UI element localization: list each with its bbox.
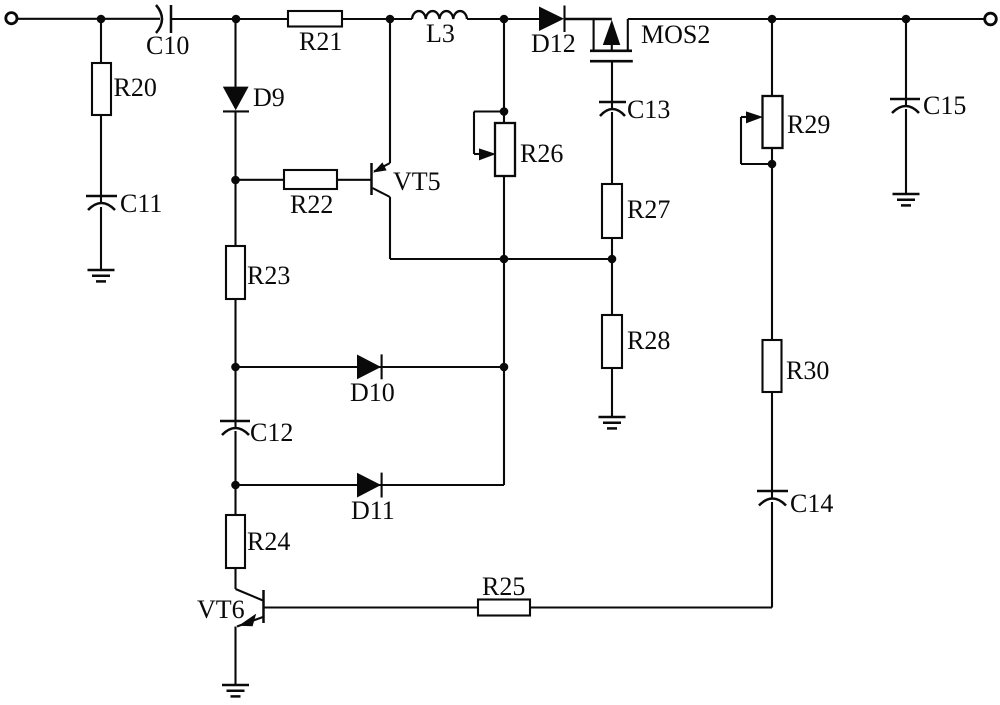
wire C11 to ground [100,207,102,270]
resistor R24 [226,515,245,568]
wire C12 to D11 row [234,431,236,485]
wire top left [18,18,160,20]
node top x504 [500,15,509,24]
svg-text:R27: R27 [627,195,670,224]
svg-text:L3: L3 [426,19,455,48]
wire MOS2 gate to C13 [611,61,613,109]
svg-text:D12: D12 [531,29,576,58]
node x235 y179 [231,176,240,185]
node x772 y164 [768,160,777,169]
svg-text:C15: C15 [923,91,966,120]
node top x390 [386,15,395,24]
svg-text:R25: R25 [482,572,525,601]
capacitor C13 [599,101,626,104]
wire top to R26 [503,19,505,123]
capacitor C14 [757,490,788,493]
svg-text:D11: D11 [351,496,395,525]
wire D12 to MOS2 [564,18,612,20]
wire R23 to D10 row [234,299,236,428]
wire C13 to R27 [611,112,613,184]
node top x906 [902,15,911,24]
svg-text:R24: R24 [247,527,290,556]
ground under C15 [893,194,920,205]
wire R30 to C14 [771,392,773,498]
transistor MOS2 [590,19,710,61]
svg-text:R23: R23 [247,261,290,290]
wire R21 to L3 [342,18,412,20]
resistor R30 [763,340,782,392]
terminal input left [6,13,17,24]
node left x101 [97,15,106,24]
svg-text:R20: R20 [114,73,157,102]
potentiometer R26 [474,112,563,177]
wire R25 to right column [530,606,772,608]
resistor R27 [602,184,622,238]
wire C14 to R25 row [771,502,773,608]
svg-text:R21: R21 [299,27,342,56]
node x235 y485 [231,481,240,490]
wire D11 row [236,484,505,486]
potentiometer R29 [741,96,830,164]
svg-text:R26: R26 [520,139,563,168]
wire C15 to ground [905,109,907,194]
diode D10 [357,355,381,380]
svg-text:MOS2: MOS2 [641,20,710,49]
wire D9 to node [234,111,236,246]
resistor R22 [284,170,337,189]
wire R29 to node [771,148,773,340]
node x504 y259 [500,255,509,264]
wire R22 to VT5 base [337,179,371,181]
terminal output right [985,13,997,25]
svg-text:C14: C14 [790,489,833,518]
resistor R20 [92,63,111,115]
wire R20 to C11 [100,115,102,203]
diode D12 [539,7,564,32]
transistor VT5 [372,19,441,259]
node top x772 [768,15,777,24]
svg-text:VT6: VT6 [197,595,245,624]
capacitor C12 [220,420,250,423]
wire R28 to ground [611,368,613,417]
svg-text:R28: R28 [627,326,670,355]
node x504 y111 [500,107,509,116]
wire C10 to R21 [171,18,288,20]
transistor VT6 [197,568,264,685]
ground under R28 [599,417,626,428]
svg-text:D9: D9 [253,83,285,112]
resistor R25 [478,600,530,616]
resistor R23 [226,246,245,299]
svg-text:C11: C11 [120,189,162,218]
capacitor C15 [890,98,920,101]
node x612 y259 [608,255,617,264]
svg-text:C12: C12 [250,418,293,447]
node x504 y367 [500,363,509,372]
node x235 y367 [231,363,240,372]
wire top to C15 [905,19,907,106]
svg-text:VT5: VT5 [393,167,441,196]
svg-text:C10: C10 [146,31,189,60]
wire node to R24 [234,485,236,515]
diode D9 [223,87,249,111]
wire node to R20 [100,19,102,63]
svg-text:R29: R29 [787,110,830,139]
wire node to R22 [236,179,285,181]
node top x236 [232,15,241,24]
ground under VT6 [222,685,249,696]
resistor R28 [602,315,622,368]
resistor R21 [288,11,342,27]
capacitor C11 [86,195,117,198]
svg-text:R22: R22 [290,190,333,219]
svg-text:C13: C13 [627,95,670,124]
wire L3 to D12 [467,18,539,20]
wire D10 row [236,366,505,368]
inductor L3 [412,11,467,19]
capacitor C10 [156,5,162,33]
wire top to R29 [771,19,773,96]
wire R27 to node [611,238,613,315]
svg-text:D10: D10 [350,378,395,407]
wire MOS2 to right terminal [628,18,984,20]
wire node to D9 [234,19,236,87]
ground under C11 [88,270,115,281]
wire node row [390,258,612,260]
svg-text:R30: R30 [786,356,829,385]
wire VT6 base to R25 [264,606,478,608]
diode D11 [357,473,381,498]
wire R26 to D11 row [503,176,505,485]
